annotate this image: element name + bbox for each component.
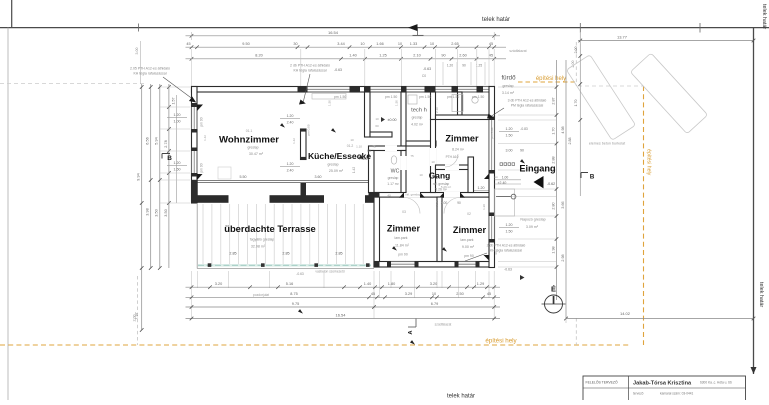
- svg-text:Jakab-Tórsa Krisztina: Jakab-Tórsa Krisztina: [633, 381, 692, 387]
- gray dashed vertical x=576 lower: [575, 318, 577, 345]
- svg-text:2.85: 2.85: [335, 251, 342, 255]
- svg-text:10: 10: [398, 42, 402, 46]
- svg-text:B: B: [590, 174, 595, 181]
- svg-text:greslap: greslap: [388, 176, 399, 180]
- svg-text:2.60: 2.60: [459, 53, 466, 57]
- svg-text:1.20: 1.20: [447, 64, 453, 68]
- svg-text:3.60: 3.60: [315, 175, 322, 179]
- svg-text:90: 90: [462, 64, 466, 68]
- svg-text:pm 90: pm 90: [398, 252, 408, 256]
- svg-text:1.17 m²: 1.17 m²: [387, 182, 399, 186]
- svg-text:1.20: 1.20: [287, 162, 294, 166]
- partition between bottom rooms: [437, 197, 442, 262]
- svg-text:2.05 PTH A12-es áthidaló: 2.05 PTH A12-es áthidaló: [130, 66, 170, 70]
- svg-text:-0.62: -0.62: [547, 182, 555, 186]
- svg-text:1.40: 1.40: [349, 53, 356, 57]
- svg-text:10: 10: [375, 117, 379, 121]
- left dimension chain lines: [141, 84, 143, 330]
- jamb blocks right wall: [489, 117, 495, 121]
- partition WC north wall: [369, 146, 407, 151]
- right window dimension pair 1: [499, 131, 519, 133]
- svg-text:30: 30: [293, 42, 297, 46]
- svg-text:2.40: 2.40: [287, 120, 294, 124]
- svg-text:1.80: 1.80: [388, 282, 395, 286]
- svg-text:11.84 m²: 11.84 m²: [395, 243, 410, 247]
- svg-text:2.50: 2.50: [456, 292, 463, 296]
- south wall pier bar 3: [365, 195, 380, 203]
- rooms block right wall: [489, 87, 495, 268]
- svg-text:KH tégla ráfalazással: KH tégla ráfalazással: [293, 69, 326, 73]
- svg-text:1.20: 1.20: [478, 186, 485, 190]
- extension lines top: [191, 49, 193, 86]
- entrance arrow (filled triangle): [534, 176, 544, 188]
- svg-text:05: 05: [367, 149, 371, 153]
- svg-text:építési hely: építési hely: [646, 149, 652, 176]
- svg-text:FELELŐS TERVEZŐ: FELELŐS TERVEZŐ: [586, 379, 618, 384]
- boundary tick x=580: [579, 23, 581, 33]
- partition Wohnzimmer/Kueche stub: [301, 129, 307, 160]
- south wall corner pier left (filled): [192, 180, 198, 203]
- svg-text:9.94: 9.94: [137, 173, 141, 180]
- partition Gang east wall: [468, 157, 474, 193]
- partition Zimmer bottom / Gang top: [436, 165, 469, 170]
- svg-text:tech h: tech h: [411, 108, 427, 114]
- svg-text:3.00: 3.00: [506, 149, 513, 153]
- paving pad rectangle A (rotated): [566, 55, 635, 141]
- bottom extension lines: [191, 271, 193, 319]
- svg-text:45: 45: [186, 42, 190, 46]
- svg-text:telek határ: telek határ: [447, 394, 475, 400]
- svg-text:6.79: 6.79: [431, 302, 438, 306]
- svg-text:KH tégla ráfalazással: KH tégla ráfalazással: [133, 72, 166, 76]
- jamb triangle left wall lower window: [197, 174, 203, 180]
- svg-text:vasbeton szerkezetű: vasbeton szerkezetű: [315, 270, 344, 274]
- svg-text:1.20: 1.20: [482, 204, 486, 210]
- svg-text:lam.park: lam.park: [460, 238, 473, 242]
- svg-text:Gang: Gang: [429, 171, 450, 181]
- svg-text:01.2: 01.2: [347, 144, 354, 148]
- svg-text:75: 75: [372, 145, 376, 149]
- dimension chain row 2 bottom: [186, 296, 501, 298]
- svg-text:40: 40: [387, 194, 391, 198]
- svg-text:fagyálló greslap: fagyálló greslap: [250, 237, 275, 241]
- dim 3.00 left of building top: [140, 41, 142, 84]
- svg-text:2.98: 2.98: [561, 254, 565, 261]
- svg-text:szádfalazat: szádfalazat: [435, 323, 452, 327]
- section A arrow on top boundary: [408, 24, 418, 31]
- svg-text:2.40: 2.40: [287, 168, 294, 172]
- svg-text:2.85: 2.85: [229, 251, 236, 255]
- svg-text:1.42: 1.42: [352, 167, 356, 173]
- svg-text:01.1: 01.1: [246, 129, 253, 133]
- svg-text:pm 1.50: pm 1.50: [447, 95, 459, 99]
- svg-text:1.40: 1.40: [364, 282, 371, 286]
- svg-text:32.98 m²: 32.98 m²: [251, 245, 266, 249]
- svg-text:greslap: greslap: [412, 116, 423, 120]
- level mark plus-minus 0.00 kueche: [381, 117, 385, 122]
- plot boundary line right: [753, 28, 755, 374]
- svg-text:10: 10: [430, 42, 434, 46]
- partition Kueche east wall: [365, 92, 371, 137]
- section marker A bottom: [415, 319, 417, 328]
- rooms block bottom wall: [374, 262, 494, 268]
- svg-text:-0.63: -0.63: [504, 268, 512, 272]
- kitchen counter: [312, 94, 346, 100]
- svg-text:kamarai szám: 03-0441: kamarai szám: 03-0441: [660, 392, 694, 396]
- svg-text:2.80: 2.80: [552, 202, 556, 209]
- svg-text:5.26 m²: 5.26 m²: [441, 185, 451, 189]
- svg-text:03: 03: [402, 210, 406, 214]
- svg-text:telek határ: telek határ: [482, 17, 510, 23]
- epitesi hely dashed line vertical right: [643, 86, 645, 345]
- svg-text:3.00: 3.00: [441, 201, 448, 205]
- windows in top wall (glazing lines): [308, 88, 350, 91]
- svg-text:Napozó greslap: Napozó greslap: [520, 218, 545, 222]
- svg-text:1.29: 1.29: [477, 282, 484, 286]
- svg-text:telek határ: telek határ: [758, 282, 764, 307]
- svg-text:45: 45: [371, 292, 375, 296]
- right window dimension pair 3: [499, 227, 519, 229]
- svg-text:1.20: 1.20: [174, 161, 181, 165]
- svg-text:2 db PTH A12-es áthidaló: 2 db PTH A12-es áthidaló: [487, 243, 526, 247]
- svg-text:3.09 m²: 3.09 m²: [526, 225, 539, 229]
- svg-text:4.98: 4.98: [561, 126, 565, 133]
- gray dashed vertical at x=576: [575, 42, 577, 86]
- svg-text:überdachte Terrasse: überdachte Terrasse: [224, 223, 316, 234]
- extension at x=566: [565, 310, 567, 323]
- svg-text:pm 1.50: pm 1.50: [419, 95, 431, 99]
- left window dimension pair 1: [167, 117, 187, 119]
- north symbol circle: [545, 295, 563, 313]
- svg-text:1.20: 1.20: [174, 113, 181, 117]
- svg-text:±0.00: ±0.00: [388, 118, 397, 122]
- svg-text:pm 1.50: pm 1.50: [385, 95, 397, 99]
- svg-text:B: B: [167, 155, 172, 162]
- door swing arcs bottom rooms: [404, 198, 420, 214]
- jamb triangle left wall top window: [197, 105, 203, 112]
- svg-text:90: 90: [441, 53, 445, 57]
- svg-text:1.50: 1.50: [506, 134, 513, 138]
- svg-text:14.02: 14.02: [620, 311, 631, 316]
- terrace posts: [208, 263, 212, 267]
- svg-text:1.42: 1.42: [292, 138, 296, 144]
- svg-text:1.20: 1.20: [506, 127, 513, 131]
- svg-text:greslap: greslap: [502, 84, 513, 88]
- svg-text:3.14 m²: 3.14 m²: [502, 91, 515, 95]
- svg-text:2.88: 2.88: [552, 156, 556, 163]
- svg-text:1.20: 1.20: [506, 223, 513, 227]
- svg-text:10: 10: [419, 173, 423, 177]
- svg-text:10: 10: [432, 292, 436, 296]
- svg-text:16.54: 16.54: [335, 312, 346, 317]
- svg-text:5.50: 5.50: [240, 175, 247, 179]
- outer wall top (double line): [192, 87, 495, 93]
- svg-text:45: 45: [489, 42, 493, 46]
- svg-text:45: 45: [487, 292, 491, 296]
- svg-text:2.65: 2.65: [451, 42, 458, 46]
- south wall pier bar 2 (T with stem): [270, 195, 325, 203]
- svg-text:1.57: 1.57: [172, 98, 176, 105]
- dimension 13.77 top right: [578, 40, 754, 42]
- svg-text:greslap: greslap: [247, 145, 258, 149]
- svg-text:elemes beton burkolat: elemes beton burkolat: [589, 142, 625, 146]
- dimension 14.02 line: [566, 318, 754, 320]
- svg-text:3 db PTH A12-es áthidaló: 3 db PTH A12-es áthidaló: [508, 98, 547, 102]
- svg-text:5.16: 5.16: [286, 282, 293, 286]
- svg-text:3.66: 3.66: [561, 201, 565, 208]
- svg-text:2.10: 2.10: [435, 107, 439, 113]
- svg-text:szádfalazat: szádfalazat: [509, 49, 526, 53]
- outer wall left (double line): [192, 87, 198, 204]
- svg-text:2 db PTH A12-es áthidaló: 2 db PTH A12-es áthidaló: [290, 63, 330, 67]
- svg-text:3.20: 3.20: [430, 282, 437, 286]
- svg-text:pm 1.50: pm 1.50: [334, 95, 346, 99]
- partition Kueche east return: [370, 132, 392, 137]
- svg-text:5.94: 5.94: [155, 137, 159, 144]
- svg-text:1.33: 1.33: [410, 42, 417, 46]
- partition WC west wall: [369, 151, 375, 193]
- svg-text:É: É: [551, 285, 556, 294]
- south wall pier bar 1: [198, 195, 229, 203]
- svg-text:2.00: 2.00: [574, 47, 578, 54]
- svg-text:építési hely: építési hely: [536, 76, 566, 82]
- svg-text:45: 45: [489, 53, 493, 57]
- svg-text:pm 90: pm 90: [200, 163, 204, 172]
- svg-text:ráf. greslap: ráf. greslap: [405, 193, 420, 197]
- svg-text:02: 02: [467, 212, 471, 216]
- svg-text:6300 Ka..c. Hóta u. 66: 6300 Ka..c. Hóta u. 66: [700, 380, 732, 384]
- svg-text:1.70: 1.70: [552, 127, 556, 134]
- svg-text:Wohnzimmer: Wohnzimmer: [219, 135, 279, 146]
- svg-text:10: 10: [431, 160, 435, 164]
- svg-text:8.75: 8.75: [290, 292, 297, 296]
- svg-text:1.00: 1.00: [502, 175, 509, 179]
- svg-text:pozdorjulat: pozdorjulat: [253, 293, 269, 297]
- svg-text:tervező: tervező: [633, 392, 644, 396]
- svg-text:Zimmer: Zimmer: [453, 225, 487, 235]
- terrace bottom edge: [197, 268, 374, 270]
- porch drain line and gully: [496, 196, 511, 198]
- svg-text:16.54: 16.54: [328, 30, 339, 35]
- gray dashed vertical at x=137 (2.00 offset): [137, 276, 139, 345]
- svg-text:pm 90: pm 90: [464, 254, 474, 258]
- svg-text:1.25: 1.25: [379, 53, 386, 57]
- sofa wohnzimmer: [218, 167, 231, 179]
- svg-text:telek határ: telek határ: [761, 4, 767, 29]
- svg-text:9.50: 9.50: [242, 42, 249, 46]
- svg-text:2.18: 2.18: [435, 200, 439, 206]
- rooms block left wall: [374, 193, 380, 268]
- wardrobe zimmer: [570, 0, 572, 1]
- svg-text:1.20: 1.20: [287, 114, 294, 118]
- dimension chain row 2 top: [186, 46, 507, 48]
- svg-text:1.50: 1.50: [328, 100, 332, 106]
- door arc gang-zimmer: [445, 154, 458, 167]
- svg-text:1.70: 1.70: [574, 100, 578, 107]
- svg-text:greslap: greslap: [327, 162, 338, 166]
- window piers in top wall (filled): [298, 86, 308, 93]
- right window dimension pair 2: [471, 190, 491, 192]
- windows in rooms bottom wall: [391, 263, 415, 266]
- svg-text:C0: C0: [422, 74, 426, 78]
- svg-text:90: 90: [457, 201, 461, 205]
- boundary tick x=700: [699, 23, 701, 33]
- svg-text:PM tégla ráfalazással: PM tégla ráfalazással: [511, 104, 544, 108]
- terrace teal edge strip: [198, 264, 371, 267]
- svg-text:3.98: 3.98: [146, 208, 150, 215]
- partition furdo west wall: [431, 92, 436, 120]
- svg-text:PTH A10: PTH A10: [446, 155, 459, 159]
- svg-text:30.47 m²: 30.47 m²: [249, 152, 264, 156]
- svg-text:-0.63: -0.63: [423, 67, 431, 71]
- boundary tick x=138: [138, 24, 140, 32]
- dimension chain row 3 bottom: [186, 306, 501, 308]
- svg-text:2.87: 2.87: [552, 97, 556, 104]
- svg-text:2.85: 2.85: [282, 251, 289, 255]
- windows in left wall: [193, 107, 196, 129]
- partition tech h south return: [406, 141, 436, 146]
- svg-text:-0.63: -0.63: [296, 272, 304, 276]
- svg-text:6.56: 6.56: [146, 137, 150, 144]
- svg-text:13.77: 13.77: [617, 34, 628, 39]
- svg-text:10: 10: [360, 42, 364, 46]
- svg-text:fürdő: fürdő: [501, 74, 516, 81]
- svg-text:±2.40: ±2.40: [498, 181, 507, 185]
- svg-text:Zimmer: Zimmer: [445, 133, 479, 143]
- svg-text:1.50: 1.50: [395, 100, 399, 106]
- dimension line 16.54 top: [186, 35, 501, 37]
- svg-text:3.50: 3.50: [155, 209, 159, 216]
- svg-text:Eingang: Eingang: [519, 164, 555, 174]
- svg-text:-0.83: -0.83: [520, 127, 528, 131]
- svg-text:pm 0.90: pm 0.90: [490, 127, 494, 138]
- svg-text:1.10: 1.10: [356, 145, 362, 149]
- partition WC east wall: [401, 151, 406, 193]
- terrace left edge: [196, 203, 198, 269]
- svg-text:9.75: 9.75: [292, 302, 299, 306]
- jamb triangles rooms top wall: [399, 192, 404, 197]
- window dim pair kueche top: [280, 117, 300, 119]
- svg-text:90: 90: [494, 251, 498, 255]
- extension for 13.77: [579, 32, 581, 44]
- svg-text:1.00: 1.00: [174, 120, 181, 124]
- window jamb blocks rooms bottom wall: [387, 262, 391, 268]
- window in right wall lower: [490, 216, 493, 239]
- svg-text:1.42: 1.42: [203, 135, 207, 141]
- svg-text:75: 75: [410, 154, 414, 158]
- svg-text:90: 90: [520, 149, 524, 153]
- paving pad rectangle B (rotated): [630, 53, 707, 134]
- plot boundary line left: [7, 28, 9, 400]
- partition furdo shower wall: [458, 92, 463, 115]
- svg-text:7.97: 7.97: [134, 312, 138, 319]
- gray dashed site line top-left: [0, 83, 146, 85]
- sun deck outline right: [495, 189, 515, 216]
- right boundary end tick: [751, 367, 757, 374]
- svg-text:pm: pm: [494, 175, 499, 179]
- svg-text:3.29: 3.29: [405, 292, 412, 296]
- rooms block top wall: [374, 193, 494, 198]
- rooms block corner fills: [374, 262, 380, 268]
- svg-text:3.50: 3.50: [164, 209, 168, 216]
- entrance mat squares: [500, 163, 503, 166]
- svg-text:8.24 m²: 8.24 m²: [452, 148, 465, 152]
- svg-text:3.00: 3.00: [135, 48, 139, 55]
- svg-text:2.78: 2.78: [164, 140, 168, 147]
- window jamb blocks left wall: [192, 103, 198, 107]
- svg-text:pm 90: pm 90: [200, 117, 204, 126]
- svg-text:1.98: 1.98: [552, 246, 556, 253]
- svg-text:25.09 m²: 25.09 m²: [329, 169, 344, 173]
- svg-text:2.10: 2.10: [413, 53, 420, 57]
- right horizontal extension lines: [498, 86, 556, 88]
- svg-text:1.50: 1.50: [174, 168, 181, 172]
- svg-text:1.66: 1.66: [376, 42, 383, 46]
- svg-text:WC: WC: [391, 168, 400, 174]
- mini dim column above furdo: [442, 62, 444, 85]
- left window dimension pair 2: [167, 165, 187, 167]
- svg-text:4.02 m²: 4.02 m²: [411, 122, 424, 126]
- svg-text:8.20: 8.20: [255, 53, 262, 57]
- porch step lines: [495, 179, 522, 181]
- door gap Zimmer top wall: [430, 148, 436, 166]
- gray dashed site line upper-right: [578, 85, 643, 87]
- right dimension chain lines: [579, 32, 581, 196]
- svg-text:10: 10: [350, 138, 354, 142]
- left horizontal extension lines: [160, 86, 190, 88]
- plot boundary line top (telek hatar): [0, 27, 769, 29]
- svg-text:9.00 m²: 9.00 m²: [462, 245, 475, 249]
- terrace deck hatch lines: [202, 204, 204, 266]
- opening in right wall (entry door and window): [490, 120, 493, 170]
- door gaps in rooms top wall: [404, 192, 420, 198]
- title block frame: [583, 376, 746, 405]
- svg-text:lam.park: lam.park: [394, 236, 407, 240]
- svg-text:1.50: 1.50: [506, 230, 513, 234]
- partition Zimmer top-left wall: [431, 120, 436, 193]
- partition tech h west wall: [401, 92, 406, 146]
- sink furdo: [472, 97, 478, 103]
- svg-text:pm 0.00: pm 0.00: [307, 124, 311, 135]
- washer tech h: [408, 95, 417, 104]
- jamb triangle right wall entry: [484, 174, 489, 180]
- dimension line 16.54 bottom: [186, 318, 501, 320]
- epitesi hely dashed segment top: [518, 81, 578, 83]
- boundary corner stub top-left: [11, 0, 13, 28]
- south glazing line (terrace doors): [197, 179, 374, 181]
- dimension chain row 1 bottom: [186, 286, 501, 288]
- svg-text:3.20: 3.20: [215, 282, 222, 286]
- window dim pair kueche bottom: [280, 165, 300, 167]
- svg-text:3.44: 3.44: [337, 42, 344, 46]
- svg-text:pm 1.50: pm 1.50: [472, 95, 484, 99]
- wc bowl: [391, 156, 397, 164]
- small direction arrows: [280, 123, 286, 129]
- svg-text:építési hely: építési hely: [485, 338, 517, 345]
- epitesi hely dashed line horizontal bottom: [0, 344, 630, 346]
- dimension chain row 3 top: [186, 58, 507, 60]
- svg-text:60: 60: [375, 124, 379, 128]
- partition furdo south wall: [436, 115, 490, 120]
- bathtub furdo: [452, 95, 463, 112]
- svg-text:Zimmer: Zimmer: [387, 223, 421, 233]
- svg-text:-0.63: -0.63: [334, 68, 342, 72]
- svg-text:2.88: 2.88: [568, 138, 572, 145]
